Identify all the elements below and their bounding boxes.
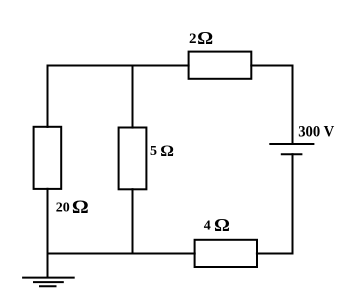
svg-text:5: 5: [150, 144, 157, 159]
wire middle branch lower: [132, 188, 134, 254]
svg-text:Ω: Ω: [214, 216, 230, 236]
wire top-left segment: [47, 65, 190, 67]
svg-text:300 V: 300 V: [298, 124, 334, 141]
wire bottom-left segment: [47, 253, 196, 255]
wire right branch lower: [292, 153, 294, 254]
resistor 20ohm box: [34, 127, 62, 189]
svg-text:Ω: Ω: [160, 142, 174, 160]
svg-text:4: 4: [204, 219, 211, 234]
resistor 4ohm box: [195, 240, 257, 267]
svg-text:2: 2: [189, 31, 197, 47]
svg-text:Ω: Ω: [197, 29, 213, 49]
resistor 2ohm box: [189, 52, 252, 79]
wire left branch lower: [47, 188, 49, 278]
svg-text:20: 20: [56, 200, 70, 215]
label 20 ohm: [56, 197, 89, 218]
wire right branch upper: [292, 65, 294, 145]
label 4 ohm: [204, 216, 230, 236]
battery 300V negative plate: [281, 153, 303, 155]
wire left branch upper: [47, 65, 49, 128]
wire top-right segment: [250, 65, 293, 67]
label 5 ohm: [150, 142, 174, 160]
wire middle branch upper: [132, 65, 134, 129]
resistor 5ohm box: [119, 128, 147, 190]
svg-text:Ω: Ω: [72, 197, 89, 218]
label 2 ohm: [189, 29, 213, 49]
ground: [22, 278, 75, 287]
wire bottom-right segment: [256, 253, 294, 255]
battery 300V positive plate: [269, 143, 314, 145]
